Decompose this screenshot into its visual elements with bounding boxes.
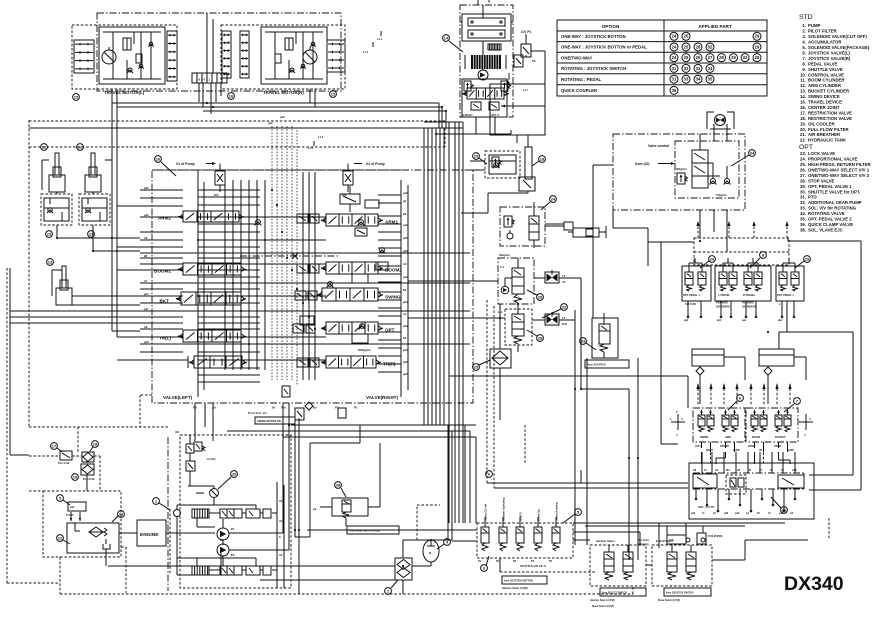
svg-text:30.: 30.	[800, 189, 806, 194]
joystick valve 6	[693, 408, 745, 452]
svg-text:ARM2: ARM2	[158, 216, 171, 221]
shuttle valve 9	[477, 497, 573, 568]
svg-text:B4: B4	[403, 336, 407, 340]
svg-text:BUCKET: BUCKET	[775, 436, 786, 439]
svg-text:P3: P3	[532, 59, 536, 63]
svg-text:23: 23	[119, 511, 124, 516]
svg-text:24.: 24.	[800, 157, 806, 162]
rotating valve outer	[613, 134, 745, 210]
svg-text:10: 10	[156, 156, 161, 161]
node 5c	[563, 509, 581, 523]
svg-text:4.: 4.	[802, 40, 806, 45]
valve to pump verticals	[195, 403, 213, 441]
wire travel center	[199, 13, 221, 114]
svg-text:R.M: R.M	[562, 322, 567, 326]
svg-text:JOYSTICK VALVE(R): JOYSTICK VALVE(R)	[808, 56, 851, 61]
svg-text:gb3: gb3	[403, 249, 408, 253]
small gauge	[174, 505, 181, 522]
node 29L	[700, 256, 715, 268]
pedal arrows	[696, 221, 788, 238]
svg-text:18: 18	[93, 441, 98, 446]
svg-text:25: 25	[684, 55, 689, 60]
svg-text:28.: 28.	[800, 178, 806, 183]
relief pair 1	[186, 435, 215, 486]
svg-text:pa2: pa2	[403, 191, 408, 195]
center comp c	[355, 228, 388, 270]
bottom left wires	[7, 268, 168, 594]
svg-text:ONE-WAY : JOYSTICK BOTTON or P: ONE-WAY : JOYSTICK BOTTON or PEDAL	[561, 45, 647, 50]
svg-text:SOLENOID VALVE(PACKAGE): SOLENOID VALVE(PACKAGE)	[808, 45, 870, 50]
option table	[557, 20, 767, 96]
svg-text:R.TRAVEL: R.TRAVEL	[743, 294, 756, 297]
svg-text:28: 28	[696, 44, 701, 49]
restriction 17	[51, 443, 72, 465]
svg-text:TRAVEL MOTOR(L): TRAVEL MOTOR(L)	[104, 90, 145, 95]
arm cylinder 12	[77, 144, 101, 192]
node 8b	[750, 252, 766, 268]
spool TR(R)	[321, 356, 396, 368]
svg-text:pb7: pb7	[144, 292, 149, 296]
svg-text:34: 34	[750, 150, 755, 155]
svg-text:SHUTTLE VALVE for OPT.: SHUTTLE VALVE for OPT.	[808, 189, 860, 194]
from 32 label	[635, 162, 675, 166]
svg-text:29: 29	[710, 256, 715, 261]
valve internal wires	[183, 172, 470, 382]
svg-text:TRAVEL DEVICE: TRAVEL DEVICE	[808, 100, 842, 105]
svg-text:pd2: pd2	[724, 512, 729, 515]
cross arrows L	[670, 410, 685, 437]
svg-text:X3 of Pump: X3 of Pump	[366, 162, 385, 166]
svg-text:A2: A2	[279, 553, 283, 557]
svg-text:LI.1: LI.1	[498, 310, 503, 314]
svg-text:25: 25	[684, 44, 689, 49]
svg-text:pd: pd	[313, 507, 317, 511]
svg-text:pb1: pb1	[717, 319, 722, 322]
svg-text:260kg/cm: 260kg/cm	[358, 348, 371, 352]
svg-text:OPT: OPT	[799, 144, 813, 151]
svg-text:RESTRICTION VALVE: RESTRICTION VALVE	[808, 116, 852, 121]
X3 relief	[342, 162, 385, 197]
svg-text:ROTATING : JOYSTICK SWITCH: ROTATING : JOYSTICK SWITCH	[561, 66, 626, 71]
prop valve 24 upper	[498, 253, 543, 312]
spool ARM1	[321, 214, 398, 226]
svg-text:17: 17	[52, 443, 57, 448]
wire top bus	[29, 103, 446, 128]
svg-text:AIR BREATHER: AIR BREATHER	[808, 132, 841, 137]
pump box	[168, 430, 291, 591]
cv p1 component	[514, 30, 545, 84]
svg-text:3.: 3.	[802, 34, 806, 39]
cross arrows R	[797, 414, 813, 437]
svg-text:25: 25	[474, 364, 479, 369]
svg-text:35.: 35.	[800, 217, 806, 222]
svg-text:34: 34	[708, 66, 713, 71]
svg-text:A4: A4	[562, 280, 566, 284]
svg-text:OIL COOLER: OIL COOLER	[808, 121, 836, 126]
svg-text:23.: 23.	[800, 151, 806, 156]
svg-text:STD: STD	[799, 14, 813, 21]
svg-text:32: 32	[562, 304, 567, 309]
svg-text:B3: B3	[403, 288, 407, 292]
svg-text:BACKWARD: BACKWARD	[716, 306, 730, 309]
svg-text:Hammer Select: Hammer Select	[596, 539, 615, 543]
svg-text:LI.1: LI.1	[318, 135, 323, 139]
svg-text:Hammer Select A) P(8): Hammer Select A) P(8)	[502, 587, 528, 590]
outer dashed borders	[7, 120, 445, 583]
select block 1	[590, 539, 646, 608]
svg-text:PUMP: PUMP	[808, 23, 821, 28]
pump group 1	[192, 509, 271, 540]
svg-text:pa7: pa7	[144, 307, 149, 311]
svg-text:PILOT FILTER: PILOT FILTER	[808, 29, 837, 34]
svg-text:1.: 1.	[802, 23, 806, 28]
center comp a	[255, 186, 379, 225]
package box 5	[43, 491, 124, 557]
travel motor outer frame	[97, 13, 341, 91]
lock valve 23 La	[41, 194, 72, 237]
svg-text:14: 14	[444, 35, 449, 40]
svg-text:BUCKET CYLINDER: BUCKET CYLINDER	[808, 89, 850, 94]
X1 relief	[176, 162, 225, 197]
svg-text:C/V P1: C/V P1	[521, 30, 532, 34]
svg-text:18: 18	[540, 156, 545, 161]
svg-text:SWING DEVICE: SWING DEVICE	[808, 94, 840, 99]
node 6 joystick	[728, 395, 743, 410]
restriction 18b	[461, 143, 545, 213]
svg-text:11.: 11.	[800, 78, 806, 83]
return filter 25	[473, 349, 511, 370]
svg-text:31: 31	[672, 77, 677, 82]
svg-text:24: 24	[672, 44, 677, 49]
select top wires	[573, 523, 785, 548]
svg-text:5.: 5.	[802, 45, 806, 50]
svg-text:pa5: pa5	[403, 348, 408, 352]
spool ARM2	[158, 211, 244, 222]
svg-text:16.: 16.	[800, 105, 806, 110]
svg-text:SOL. V/V for ROTATING: SOL. V/V for ROTATING	[808, 206, 857, 211]
svg-text:ARM: ARM	[725, 436, 731, 439]
svg-text:27.: 27.	[800, 173, 806, 178]
svg-text:QUICK COUPLER: QUICK COUPLER	[561, 88, 598, 93]
control valve outer box	[152, 170, 473, 403]
svg-text:33: 33	[581, 338, 586, 343]
parts list	[799, 14, 872, 232]
svg-text:28: 28	[336, 482, 341, 487]
svg-text:29: 29	[755, 34, 760, 39]
svg-text:LI.1: LI.1	[523, 88, 528, 92]
B30M boxes	[667, 533, 723, 544]
svg-text:32: 32	[684, 66, 689, 71]
svg-text:HYDRAULIC TANK: HYDRAULIC TANK	[808, 138, 847, 143]
svg-text:OPT. PEDAL 1: OPT. PEDAL 1	[683, 294, 700, 297]
wire top drop bundle	[424, 122, 463, 180]
svg-text:pb5: pb5	[403, 360, 408, 364]
svg-text:OPT. PEDAL 1: OPT. PEDAL 1	[777, 294, 794, 297]
svg-text:L5: L5	[562, 316, 566, 320]
svg-text:32: 32	[708, 44, 713, 49]
svg-text:RIGHT: RIGHT	[706, 450, 714, 452]
svg-text:A6: A6	[144, 236, 148, 240]
svg-text:TRAVEL MOTOR(R): TRAVEL MOTOR(R)	[263, 90, 304, 95]
svg-text:26.: 26.	[800, 167, 806, 172]
svg-text:SWING: SWING	[700, 436, 709, 439]
svg-text:from JOYSTICK BOTTON: from JOYSTICK BOTTON	[504, 580, 533, 583]
svg-text:LOCK VALVE: LOCK VALVE	[808, 151, 835, 156]
svg-text:PTO: PTO	[808, 195, 817, 200]
right lower wires	[702, 448, 862, 540]
center joint 16	[192, 73, 227, 83]
svg-text:25: 25	[684, 34, 689, 39]
svg-text:B2: B2	[403, 212, 407, 216]
svg-text:pa4: pa4	[403, 275, 408, 279]
svg-text:19.: 19.	[800, 121, 806, 126]
svg-text:L5: L5	[562, 274, 566, 278]
svg-text:pb2: pb2	[403, 236, 408, 240]
svg-text:LI.1: LI.1	[500, 265, 505, 269]
svg-text:APPLIED PART: APPLIED PART	[698, 24, 732, 29]
svg-text:25.: 25.	[800, 162, 806, 167]
svg-text:VALVE(RIGHT): VALVE(RIGHT)	[366, 395, 398, 400]
spool TR(L)	[159, 330, 246, 342]
node 15 L	[73, 94, 80, 101]
svg-text:29: 29	[755, 44, 760, 49]
spool straight travel	[183, 356, 247, 368]
svg-text:P2: P2	[193, 406, 197, 410]
svg-text:21.: 21.	[800, 132, 806, 137]
svg-text:15: 15	[74, 94, 79, 99]
opt pedal1 R	[776, 258, 804, 306]
svg-text:L.TRAVEL: L.TRAVEL	[718, 294, 731, 297]
svg-text:pb6: pb6	[144, 186, 149, 190]
spool SWING	[317, 288, 401, 301]
svg-text:Bo: Bo	[313, 406, 317, 410]
svg-text:DOWN: DOWN	[748, 446, 756, 448]
valve right ports	[378, 191, 408, 376]
svg-text:29.: 29.	[800, 184, 806, 189]
node 10	[155, 156, 176, 176]
swing outer box 14	[460, 5, 513, 117]
svg-text:23: 23	[47, 231, 52, 236]
svg-text:SHUTTLE VALVE: SHUTTLE VALVE	[808, 67, 843, 72]
svg-text:Shear Select A) P(8): Shear Select A) P(8)	[658, 599, 680, 602]
svg-text:M4: M4	[726, 469, 730, 472]
center comp b	[300, 274, 371, 352]
svg-text:Safety Cut-off: Safety Cut-off	[484, 504, 488, 521]
filter 19	[72, 464, 95, 481]
valve top rail	[157, 169, 408, 171]
svg-text:P2: P2	[231, 553, 235, 557]
svg-text:FORWARD: FORWARD	[742, 302, 754, 305]
filter wires	[108, 505, 440, 594]
bucket cylinder 13	[47, 259, 72, 305]
top LI labels	[363, 31, 382, 54]
spool BKT	[160, 292, 246, 305]
node 34	[731, 150, 755, 166]
valve drop bundle	[424, 128, 463, 523]
svg-text:CENTER JOINT: CENTER JOINT	[808, 105, 840, 110]
svg-text:ENGINE: ENGINE	[140, 532, 159, 538]
svg-text:23: 23	[474, 153, 479, 158]
svg-text:28: 28	[538, 294, 543, 299]
svg-text:P4 of Sol. v/v: P4 of Sol. v/v	[248, 411, 267, 415]
swing gearbox	[460, 5, 513, 41]
svg-text:36.: 36.	[800, 222, 806, 227]
svg-text:Pcr=2.0k: Pcr=2.0k	[83, 477, 95, 481]
select block 2	[652, 539, 712, 602]
svg-text:X3: X3	[279, 499, 283, 503]
svg-text:VALVE(LEFT): VALVE(LEFT)	[163, 395, 193, 400]
svg-text:15: 15	[331, 91, 336, 96]
svg-text:19: 19	[73, 474, 78, 479]
valve left ports	[10, 186, 183, 360]
svg-text:SHUTTLE VALVE 1/: SHUTTLE VALVE 1/	[520, 564, 546, 568]
svg-text:P2: P2	[335, 406, 339, 410]
node 28c	[335, 482, 346, 497]
svg-text:ga5: ga5	[403, 372, 408, 376]
engine box	[137, 520, 166, 546]
pedal dashed box	[694, 238, 789, 265]
svg-text:18.: 18.	[800, 116, 806, 121]
svg-text:from JOYSTICK SWITCH: from JOYSTICK SWITCH	[666, 593, 694, 595]
svg-text:28: 28	[719, 55, 724, 60]
svg-text:pb8: pb8	[144, 340, 149, 344]
joystick valve 7	[746, 408, 798, 452]
svg-text:30kg/cm: 30kg/cm	[499, 253, 510, 257]
node 14	[443, 35, 463, 52]
svg-text:A4: A4	[403, 312, 407, 316]
valve right label	[366, 395, 398, 400]
svg-text:JOYSTICK VALVE(L): JOYSTICK VALVE(L)	[808, 50, 850, 55]
svg-text:2 6 5 0 3 1: 2 6 5 0 3 1	[196, 78, 211, 82]
svg-text:UP: UP	[759, 450, 763, 452]
svg-text:S: S	[279, 535, 281, 539]
svg-text:CRWD: CRWD	[774, 446, 781, 448]
svg-text:from (32): from (32)	[635, 162, 650, 166]
right column wires	[648, 238, 861, 490]
svg-text:A3: A3	[403, 262, 407, 266]
svg-text:Valve control: Valve control	[648, 144, 669, 148]
svg-text:24: 24	[551, 196, 556, 201]
svg-text:STOP VALVE: STOP VALVE	[808, 178, 835, 183]
svg-text:6.: 6.	[802, 50, 806, 55]
stop valve 28u	[545, 270, 566, 284]
svg-text:B6: B6	[144, 254, 148, 258]
svg-text:7.: 7.	[802, 56, 806, 61]
svg-text:QUICK CLAMP VALVE: QUICK CLAMP VALVE	[808, 222, 853, 227]
shuttle label box	[502, 576, 547, 590]
svg-text:24V: 24V	[70, 506, 75, 509]
svg-text:22.: 22.	[800, 138, 806, 143]
svg-text:ONE/TWO-WAY SELECT V/V 2: ONE/TWO-WAY SELECT V/V 2	[808, 173, 870, 178]
svg-text:pd3: pd3	[735, 512, 740, 515]
svg-text:pb4: pb4	[778, 319, 783, 322]
shuttle opt box L	[692, 349, 724, 380]
svg-text:70kg/cm: 70kg/cm	[716, 193, 727, 197]
node 29R	[795, 256, 810, 268]
sol valve block 5	[689, 463, 814, 519]
svg-text:Pcr=2.0k: Pcr=2.0k	[58, 461, 70, 465]
svg-text:Shear Select A) P(8): Shear Select A) P(8)	[592, 605, 614, 608]
wire swing top	[436, 0, 511, 134]
travel motor R label	[263, 90, 304, 95]
svg-text:CROWD: CROWD	[720, 446, 729, 448]
LS dashdot line	[240, 253, 340, 259]
svg-text:32.: 32.	[800, 200, 806, 205]
svg-text:9.: 9.	[802, 67, 806, 72]
svg-text:from JOYSTICK: from JOYSTICK	[587, 364, 606, 367]
svg-text:Hammer Select A) P(8): Hammer Select A) P(8)	[590, 599, 615, 602]
svg-text:B-M: B-M	[669, 539, 674, 542]
svg-text:A1: A1	[279, 519, 283, 523]
pilot dashed bus	[272, 126, 297, 385]
air breather 18	[82, 441, 98, 462]
svg-text:30kg/cm: 30kg/cm	[676, 167, 687, 171]
svg-text:27: 27	[708, 55, 713, 60]
valve bottom comps	[193, 386, 358, 424]
svg-text:SOL. VLAVE EJC: SOL. VLAVE EJC	[808, 227, 843, 232]
svg-text:pa6: pa6	[144, 213, 149, 217]
swing motor block	[465, 41, 506, 70]
joystick to sol wires	[702, 452, 795, 473]
svg-text:Boom Up: Boom Up	[537, 509, 541, 521]
svg-text:RESTRICTION VALVE: RESTRICTION VALVE	[808, 110, 852, 115]
svg-text:P1: P1	[231, 527, 235, 531]
svg-text:PROPORTIONAL VALVE: PROPORTIONAL VALVE	[808, 157, 858, 162]
valve left label	[163, 395, 193, 400]
swing motor circle	[478, 70, 488, 80]
svg-text:20: 20	[232, 471, 237, 476]
svg-text:22: 22	[58, 535, 63, 540]
svg-text:28: 28	[755, 55, 760, 60]
svg-text:35: 35	[708, 77, 713, 82]
node 3	[481, 556, 489, 571]
cylinder wires	[42, 89, 315, 337]
svg-text:X1 of Pump: X1 of Pump	[176, 162, 195, 166]
svg-text:Safety Activing: Safety Activing	[555, 502, 559, 521]
svg-text:BOOM CYLINDER: BOOM CYLINDER	[808, 78, 845, 83]
svg-text:BOOM1: BOOM1	[154, 269, 171, 274]
svg-text:pd2: pd2	[268, 121, 273, 125]
svg-text:15.: 15.	[800, 100, 806, 105]
svg-text:P=0.05: P=0.05	[66, 515, 74, 517]
svg-text:to (24): to (24)	[207, 457, 215, 461]
svg-text:to MCV: to MCV	[519, 512, 523, 521]
svg-text:LI.1: LI.1	[377, 37, 382, 41]
svg-text:33.: 33.	[800, 206, 806, 211]
svg-text:PEDAL VALVE: PEDAL VALVE	[808, 61, 838, 66]
svg-text:OPT. PEDAL VALVE 1: OPT. PEDAL VALVE 1	[808, 184, 852, 189]
svg-text:pa1: pa1	[742, 319, 747, 322]
svg-text:pd3: pd3	[280, 115, 285, 119]
spool BOOM2	[321, 262, 402, 274]
svg-text:SWING MOTOR ON: SWING MOTOR ON	[257, 419, 281, 423]
boom cylinder 11	[41, 144, 65, 192]
stop valve row	[545, 222, 606, 238]
svg-text:OPTION: OPTION	[602, 24, 620, 29]
svg-text:28: 28	[538, 335, 543, 340]
sol feed wires	[449, 358, 688, 560]
svg-text:TR(L): TR(L)	[159, 336, 171, 341]
svg-text:32: 32	[743, 55, 748, 60]
svg-text:29: 29	[805, 256, 810, 261]
regulator circle	[210, 489, 219, 506]
svg-text:29: 29	[731, 55, 736, 60]
svg-text:Dr3: Dr3	[214, 193, 219, 197]
svg-text:pa3: pa3	[403, 223, 408, 227]
svg-text:SWING: SWING	[385, 295, 401, 300]
travel motor L label	[104, 90, 145, 95]
lock valve 23 center	[470, 151, 520, 178]
